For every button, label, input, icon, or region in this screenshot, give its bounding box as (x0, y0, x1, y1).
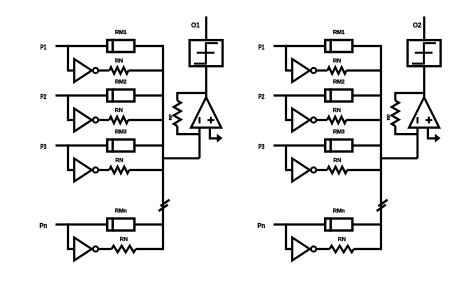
svg-text:O2: O2 (413, 20, 422, 29)
resistor RN row P1 (109, 67, 128, 74)
memristor RMn (325, 217, 352, 231)
resistor RN row Pn (112, 246, 136, 253)
svg-text:RN: RN (115, 58, 123, 64)
wire P2 branch to inverter (286, 94, 292, 120)
wire O2 output (423, 16, 425, 40)
inverter P3 row output bubble (93, 167, 98, 172)
svg-text:RN: RN (333, 158, 341, 164)
inverter P1 row output bubble (311, 68, 316, 73)
wire P3 input lead (56, 144, 108, 146)
wire Pn branch to inverter (286, 223, 292, 249)
op-amp A1 non-inverting input mark (208, 117, 215, 124)
svg-text:RMn: RMn (333, 209, 346, 215)
inverter P3 row output bubble (311, 167, 316, 172)
svg-text:RN: RN (333, 58, 341, 64)
svg-text:RM2: RM2 (115, 80, 127, 86)
op-amp A2 inverting input mark (417, 117, 419, 123)
wire RN to bus (346, 119, 381, 121)
wire RN to bus (128, 119, 163, 121)
wire feedback tap (177, 92, 206, 94)
svg-text:RF: RF (386, 114, 392, 120)
svg-text:RN: RN (115, 108, 123, 114)
svg-text:RN: RN (333, 108, 341, 114)
inverter P1 row output bubble (93, 68, 98, 73)
resistor RF (392, 101, 399, 126)
inverter P1 row (292, 59, 310, 82)
wire P2 branch to inverter (68, 94, 74, 120)
wire P3 branch to inverter (286, 144, 292, 170)
inverter Pn row output bubble (93, 246, 98, 251)
wire P1 input lead (274, 45, 326, 47)
ground arrow (217, 134, 223, 143)
wire inverter output to RN (316, 119, 327, 121)
hard-limiter block F2 step-function symbol (412, 43, 436, 64)
memristor RM1 (325, 39, 352, 53)
inverter Pn row (74, 238, 92, 261)
wire RM1 to bus (134, 45, 163, 47)
wire RM3 to bus (352, 144, 381, 146)
wire inverter output to RN (98, 69, 109, 71)
wire RMn to bus (352, 223, 381, 225)
hard-limiter block F2 box (408, 40, 441, 66)
op-amp A1 (191, 97, 221, 127)
svg-text:RM1: RM1 (333, 30, 345, 36)
inverter P2 row output bubble (311, 117, 316, 122)
wire RF top lead (394, 92, 396, 101)
bus continuation break mark (377, 200, 388, 211)
wire P1 branch to inverter (286, 45, 292, 71)
wire P3 input lead (274, 144, 326, 146)
wire inverter output to RN (316, 169, 327, 171)
inverter Pn row (292, 238, 310, 261)
wire O1 output (205, 16, 207, 40)
wire RM1 to bus (352, 45, 381, 47)
wire limiter input from op-amp A1 output (205, 66, 207, 98)
wire RF top lead (176, 92, 178, 101)
inverter P2 row (292, 109, 310, 132)
wire Pn input lead (274, 223, 326, 225)
wire summing bus (380, 45, 382, 250)
wire inverter output to RN (98, 119, 109, 121)
memristor RM3 (325, 138, 352, 152)
svg-text:P2: P2 (40, 92, 46, 101)
memristor RM3 (107, 138, 134, 152)
svg-text:RM3: RM3 (115, 130, 127, 136)
bus continuation break mark (159, 200, 170, 211)
wire non-inverting input to ground (428, 128, 435, 139)
wire summing bus to op-amp (380, 157, 418, 159)
resistor RN row P3 (109, 167, 129, 174)
wire RN to bus (354, 248, 381, 250)
memristor RM1 (107, 39, 134, 53)
op-amp A1 inverting input mark (199, 117, 201, 123)
svg-text:O1: O1 (191, 20, 200, 29)
wire limiter input from op-amp A2 output (423, 66, 425, 98)
inverter P3 row (74, 159, 92, 182)
svg-text:RM2: RM2 (333, 80, 345, 86)
wire RN to bus (346, 69, 381, 71)
wire Pn branch to inverter (68, 223, 74, 249)
resistor RF (174, 101, 181, 126)
inverter P1 row (74, 59, 92, 82)
svg-text:Pn: Pn (40, 221, 48, 230)
wire RN to bus (128, 69, 163, 71)
wire RMn to bus (134, 223, 163, 225)
wire feedback tap (395, 92, 424, 94)
wire RF bottom lead / feedback return (177, 126, 199, 134)
hard-limiter block F1 box (190, 40, 223, 66)
svg-text:P2: P2 (258, 92, 264, 101)
ground arrow (435, 134, 441, 143)
wire inverter output to RN (316, 248, 329, 250)
resistor RN row P1 (327, 67, 346, 74)
svg-text:P1: P1 (258, 42, 264, 51)
svg-text:P3: P3 (40, 142, 46, 151)
resistor RN row P3 (327, 167, 347, 174)
wire P3 branch to inverter (68, 144, 74, 170)
inverter P3 row (292, 159, 310, 182)
wire P2 input lead (56, 94, 108, 96)
inverter Pn row output bubble (311, 246, 316, 251)
wire non-inverting input to ground (210, 128, 217, 139)
svg-text:RN: RN (338, 237, 346, 243)
memristor RMn (107, 217, 134, 231)
wire inverter output to RN (316, 69, 327, 71)
wire Pn input lead (56, 223, 108, 225)
wire inverter output to RN (98, 248, 111, 250)
wire inverter output to RN (98, 169, 109, 171)
resistor RN row P2 (327, 117, 346, 124)
memristor RM2 (325, 88, 352, 102)
op-amp A2 (409, 97, 439, 127)
resistor RN row P2 (109, 117, 128, 124)
wire RM2 to bus (352, 94, 381, 96)
wire RM3 to bus (134, 144, 163, 146)
wire RN to bus (347, 169, 381, 171)
svg-text:P1: P1 (40, 42, 46, 51)
svg-text:RN: RN (120, 237, 128, 243)
wire RM2 to bus (134, 94, 163, 96)
inverter P2 row (74, 109, 92, 132)
memristor RM2 (107, 88, 134, 102)
svg-text:RN: RN (115, 158, 123, 164)
svg-text:P3: P3 (258, 142, 264, 151)
wire P1 branch to inverter (68, 45, 74, 71)
op-amp A2 non-inverting input mark (426, 117, 433, 124)
wire RF bottom lead / feedback return (395, 126, 417, 134)
wire inverting input to summing node (416, 128, 418, 159)
wire RN to bus (136, 248, 163, 250)
inverter P2 row output bubble (93, 117, 98, 122)
wire summing bus (162, 45, 164, 250)
svg-text:Pn: Pn (258, 221, 266, 230)
wire summing bus to op-amp (162, 157, 200, 159)
svg-text:RM3: RM3 (333, 130, 345, 136)
resistor RN row Pn (330, 246, 354, 253)
svg-text:RF: RF (168, 114, 174, 120)
wire P2 input lead (274, 94, 326, 96)
hard-limiter block F1 step-function symbol (194, 43, 218, 64)
wire RN to bus (129, 169, 163, 171)
svg-text:RM1: RM1 (115, 30, 127, 36)
svg-text:RMn: RMn (115, 209, 128, 215)
wire inverting input to summing node (198, 128, 200, 159)
wire P1 input lead (56, 45, 108, 47)
